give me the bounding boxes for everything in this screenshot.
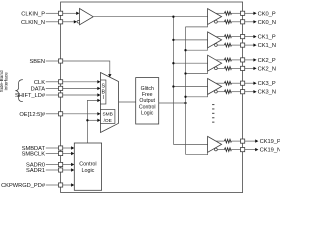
wire enable branch to CK19 buffer [186,152,208,154]
junction clock branch CK1 [172,39,174,41]
wire CLKIN_N to buffer [63,21,74,23]
svg-text:SMBCLK: SMBCLK [22,152,46,158]
arrowhead control into SMB/OE [97,119,100,122]
wire CK19_P to pin [231,140,240,142]
wire CK1_N to pin [231,44,240,46]
svg-text:CK3_P: CK3_P [258,81,276,87]
svg-text:CK19_P: CK19_P [260,139,280,145]
input pin CLKIN_N [59,20,63,24]
arrowhead OE into SMB/OE [97,112,100,115]
arrowhead CK2_N [253,67,256,70]
svg-text:SHIFT_LD#: SHIFT_LD# [15,93,46,99]
input pin DATA [59,86,63,90]
wire CK1_P pin to arrow [245,36,254,38]
arrowhead CK0_N [253,20,256,23]
series resistor CK0_N [224,20,231,24]
output pin CK1_P [241,35,245,39]
output buffer CK19 [208,136,222,152]
input pin CLKIN_P [59,11,63,15]
junction clock trunk top [172,16,174,18]
input pin SADR1 [59,168,63,172]
wire CK19_P output [216,140,224,142]
svg-text:CLKIN_N: CLKIN_N [21,20,45,26]
svg-text:Free: Free [142,92,153,98]
wire CKPWRGD_PD# lead [46,184,59,186]
chip boundary box [61,2,243,193]
arrowhead CLK into SBI [97,80,100,83]
arrowhead control into SBI [97,99,100,102]
wire CK1_P output [216,36,224,38]
svg-text:CK0_N: CK0_N [258,20,276,26]
wire CLKIN_P lead [46,12,59,14]
wire clock branch to CK19 buffer [173,143,207,145]
output buffer CK3 [208,79,222,95]
svg-text:Logic: Logic [141,111,154,117]
wire glitch output to enable bus [159,102,186,104]
arrowhead CK1_N [253,43,256,46]
wire enable bus vertical [185,27,187,155]
wire OE[12:5]# to SMB/OE [63,113,98,115]
output pin CK1_N [241,43,245,47]
output pin CK19_P [241,139,245,143]
series resistor CK1_P [224,35,231,39]
wire SADR0 lead [46,164,59,166]
wire CK2_P pin to arrow [245,59,254,61]
svg-text:CK1_P: CK1_P [258,35,276,41]
svg-text:CK2_P: CK2_P [258,58,276,64]
wire enable branch to CK2 buffer [186,71,208,73]
arrowhead CKPWRGD_PD# into control logic [71,183,74,186]
inversion bubble CK0_N [215,20,218,23]
wire SBEN to mux select [63,61,110,74]
svg-text:Output: Output [139,98,155,104]
ellipsis continuation dots [212,104,214,123]
wire SHIFT_LD# lead [46,94,59,96]
inversion bubble CK1_N [215,44,218,47]
wire SMBDAT lead [46,147,59,149]
wire clock branch to CK1 buffer [173,39,207,41]
wire CK0_N pin to arrow [245,21,254,23]
wire CK0_P output [216,12,224,14]
series resistor CK2_N [224,67,231,71]
wire CLK to SBI [63,81,98,83]
arrowhead CK3_N [253,90,256,93]
wire CK2_N output [217,67,224,69]
junction clock branch CK3 [172,85,174,87]
svg-text:SMB: SMB [102,111,112,117]
svg-text:SADR1: SADR1 [26,168,45,174]
input pin SMBCLK [59,151,63,155]
wire SADR1 to control logic [63,169,71,171]
svg-text:/OE: /OE [104,118,112,124]
wire CK3_P pin to arrow [245,82,254,84]
wire CK3_P output [216,82,224,84]
svg-text:CK2_N: CK2_N [258,66,276,72]
arrowhead CK19_N [255,148,258,151]
svg-text:I: I [102,95,103,101]
series resistor CK3_N [224,90,231,94]
svg-text:CK19_N: CK19_N [260,148,280,154]
wire SMBCLK lead [46,153,59,155]
wire clock main line U1 output to U2 input [93,16,207,18]
input pin SBEN [59,59,63,63]
svg-text:SBEN: SBEN [30,59,46,65]
arrowhead CLKIN_N into U1 [74,20,77,23]
arrowhead SBEN into mux [108,74,111,77]
wire control logic to SBI serial [87,100,97,143]
wire CK2_N pin to arrow [245,67,254,69]
input pin CKPWRGD_PD# [59,183,63,187]
output buffer CK2 [208,55,222,71]
wire CK1_N pin to arrow [245,44,254,46]
wire CLKIN_P to buffer [63,12,76,14]
svg-text:CK3_N: CK3_N [258,90,276,96]
inversion bubble CK3_N [215,90,218,93]
input pin CLK [59,80,63,84]
wire CK2_N to pin [231,67,240,69]
wire CK1_N output [217,44,224,46]
series resistor CK19_N [224,148,231,152]
wire clock branch to CK3 buffer [173,86,207,88]
series resistor CK19_P [224,139,231,143]
wire CK0_N output [217,21,224,23]
wire DATA lead [46,87,59,89]
svg-text:Control: Control [79,162,96,168]
output pin CK0_N [241,20,245,24]
output pin CK3_N [241,90,245,94]
wire CK3_N output [217,91,224,93]
wire CK3_N to pin [231,91,240,93]
wire CK19_N pin to arrow [245,149,256,151]
wire SADR0 to control logic [63,164,71,166]
wire enable branch to CK1 buffer [186,48,208,50]
arrowhead CK2_P [253,58,256,61]
wire control logic branch to SMB/OE [87,119,97,121]
output buffer CK1 [208,32,222,48]
SBI shift register box [101,80,106,104]
output pin CK19_N [241,148,245,152]
wire SMBCLK to control logic [63,153,71,155]
input buffer U1 [80,9,94,25]
arrowhead SADR1 into control logic [71,168,74,171]
junction enable bus feed [184,102,186,104]
svg-text:CLK: CLK [34,80,45,86]
output pin CK3_P [241,81,245,85]
svg-text:Logic: Logic [81,168,94,174]
svg-text:CK1_N: CK1_N [258,43,276,49]
input pin SADR0 [59,162,63,166]
junction control feedback [86,119,88,121]
wire CK0_P to pin [231,12,240,14]
input pin OE[12:5]# [59,112,63,116]
svg-text:CK0_P: CK0_P [258,11,276,17]
svg-text:DATA: DATA [31,86,46,92]
svg-text:Glitch: Glitch [141,86,154,92]
inversion bubble CK19_N [215,148,218,151]
wire SBEN lead [46,60,59,62]
wire CK0_P pin to arrow [245,12,254,14]
brace grouping side-band signals [15,80,22,102]
series resistor CK2_P [224,58,231,62]
arrowhead SMBCLK into control logic [71,152,74,155]
wire SADR1 lead [46,169,59,171]
wire CK0_N to pin [231,21,240,23]
wire CK2_P to pin [231,59,240,61]
wire mux output to glitch logic [119,101,136,103]
SMB/OE box [101,110,115,124]
wire enable branch to CK3 buffer [186,94,208,96]
wire DATA to SBI [63,87,98,89]
wire CK19_N to pin [231,149,240,151]
junction clock branch CK2 [172,62,174,64]
wire CK3_P to pin [231,82,240,84]
glitch free output control logic box [136,78,159,124]
mux select trapezoid [101,73,119,133]
wire CK2_P output [216,59,224,61]
wire CLK lead [46,81,59,83]
inversion bubble CK2_N [215,67,218,70]
output pin CK2_P [241,58,245,62]
arrowhead SMBDAT into control logic [71,146,74,149]
svg-text:Control: Control [139,104,156,110]
inversion bubble on U1 CLKIN_N input [77,21,80,24]
input pin SHIFT_LD# [59,93,63,97]
output pin CK0_P [241,11,245,15]
svg-text:Interface: Interface [4,72,9,91]
svg-text:OE[12:5]#: OE[12:5]# [19,112,45,118]
arrowhead CK1_P [253,35,256,38]
svg-text:CLKIN_P: CLKIN_P [21,11,45,17]
arrowhead CK19_P [255,139,258,142]
control logic box [74,143,101,190]
wire CK19_P pin to arrow [245,140,256,142]
wire clock trunk vertical [172,17,174,145]
arrowhead CLKIN_P into U1 [76,12,79,15]
wire CLKIN_N lead [46,21,59,23]
wire SHIFT_LD# to SBI [63,94,98,96]
junction enable branch CK1 [184,49,186,51]
wire SMBDAT to control logic [63,147,71,149]
input pin SMBDAT [59,146,63,150]
svg-text:CKPWRGD_PD#: CKPWRGD_PD# [1,183,46,189]
junction enable branch CK2 [184,72,186,74]
wire CK19_N output [217,149,224,151]
series resistor CK1_N [224,43,231,47]
arrowhead CK3_P [253,82,256,85]
wire CK3_N pin to arrow [245,91,254,93]
arrowhead SADR0 into control logic [71,163,74,166]
output pin CK2_N [241,66,245,70]
arrowhead DATA into SBI [97,87,100,90]
wire CKPWRGD_PD# to control logic [63,184,71,186]
junction enable branch CK3 [184,96,186,98]
series resistor CK3_P [224,81,231,85]
output buffer CK0 [208,9,222,25]
series resistor CK0_P [224,12,231,16]
wire CK1_P to pin [231,36,240,38]
wire OE[12:5]# lead [46,113,59,115]
wire clock branch to CK2 buffer [173,62,207,64]
arrowhead SHIFT_LD# into SBI [97,93,100,96]
wire enable branch to CK0 buffer [186,25,208,27]
arrowhead CK0_P [253,12,256,15]
